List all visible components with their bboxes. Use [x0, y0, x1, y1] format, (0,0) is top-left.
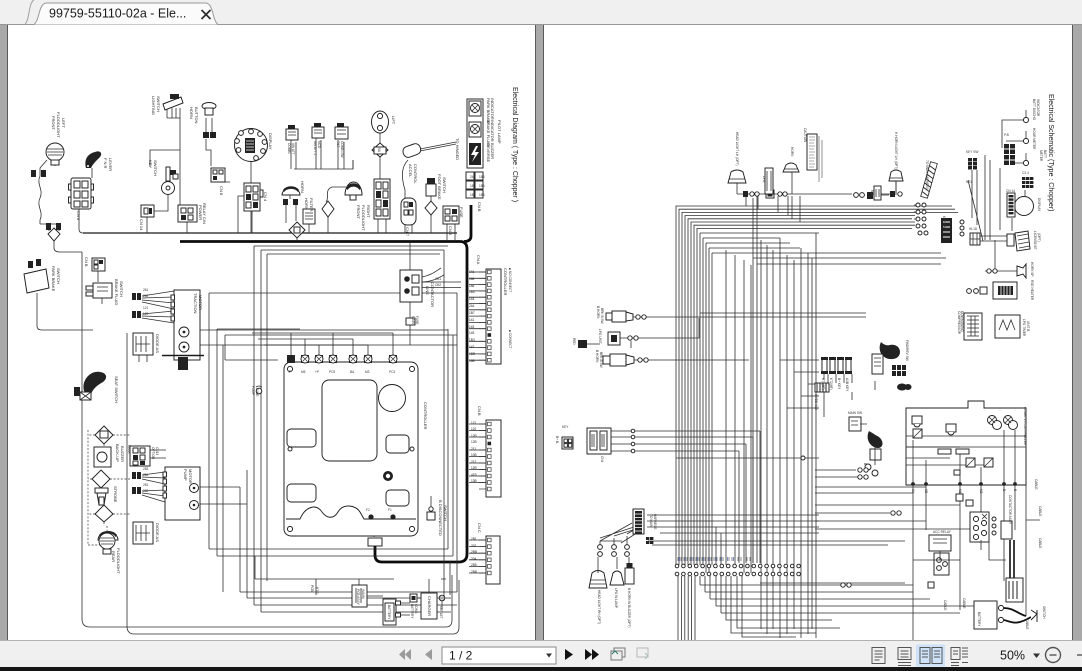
svg-text:COMBI: COMBI — [287, 143, 291, 154]
svg-text:18B: 18B — [470, 193, 476, 197]
svg-text:BATTERY: BATTERY — [410, 604, 414, 619]
svg-text:LIGHTING: LIGHTING — [151, 96, 156, 115]
svg-text:CN B: CN B — [477, 202, 482, 212]
svg-text:HORN: HORN — [790, 147, 794, 157]
svg-text:RSE HEATER: RSE HEATER — [1030, 280, 1034, 301]
svg-text:B HORN: B HORN — [596, 306, 600, 319]
svg-text:ACCEL: ACCEL — [408, 164, 413, 178]
svg-text:1B7: 1B7 — [469, 311, 475, 315]
svg-text:SWITCH: SWITCH — [153, 160, 158, 176]
svg-text:PC3: PC3 — [389, 370, 395, 374]
svg-text:122: 122 — [471, 427, 477, 431]
svg-text:H HORN LIGHT LH (OPT): H HORN LIGHT LH (OPT) — [894, 132, 898, 169]
svg-text:LPG W LAMP: LPG W LAMP — [614, 588, 618, 608]
svg-text:CB1: CB1 — [435, 277, 441, 281]
svg-text:212: 212 — [471, 460, 477, 464]
svg-text:145: 145 — [469, 331, 475, 335]
svg-text:1B5: 1B5 — [469, 290, 475, 294]
svg-text:284: 284 — [143, 473, 149, 477]
svg-text:282: 282 — [143, 489, 149, 493]
svg-text:-P: -P — [288, 370, 291, 374]
svg-text:16B: 16B — [469, 359, 475, 363]
svg-text:PC5: PC5 — [329, 370, 335, 374]
svg-text:PCB: PCB — [310, 585, 314, 592]
svg-text:RIGHT: RIGHT — [366, 205, 371, 218]
svg-text:18B: 18B — [479, 193, 485, 197]
svg-text:COMBI VX CONTROLLER: COMBI VX CONTROLLER — [1023, 407, 1027, 446]
svg-text:FILTER: FILTER — [309, 198, 314, 212]
svg-text:CABLE: CABLE — [962, 598, 966, 608]
svg-text:CABLE: CABLE — [1038, 538, 1042, 548]
svg-text:LPG UNIT: LPG UNIT — [598, 329, 602, 344]
svg-text:INDICATOR: INDICATOR — [490, 98, 495, 120]
svg-text:283: 283 — [143, 467, 149, 471]
svg-text:FRONT: FRONT — [51, 116, 56, 130]
svg-text:MOTOR: MOTOR — [198, 295, 203, 310]
svg-text:18B: 18B — [470, 184, 476, 188]
svg-text:B+: B+ — [863, 463, 867, 467]
svg-text:N11: N11 — [870, 190, 874, 196]
svg-text:PUMP: PUMP — [251, 386, 255, 395]
svg-text:HTG: HTG — [315, 587, 319, 594]
svg-text:Electrical Diagram ( Type : Ch: Electrical Diagram ( Type : Chopper ) — [511, 87, 518, 202]
svg-text:B+: B+ — [1002, 489, 1006, 493]
svg-text:B-: B- — [1013, 489, 1017, 492]
svg-text:261: 261 — [143, 288, 149, 292]
svg-text:2B5: 2B5 — [471, 563, 477, 567]
svg-text:M5: M5 — [301, 370, 306, 374]
svg-text:CONN: CONN — [414, 604, 418, 614]
svg-text:1B3: 1B3 — [469, 338, 475, 342]
svg-text:FUSE: FUSE — [415, 316, 419, 325]
svg-text:TRACTION: TRACTION — [193, 293, 198, 314]
svg-text:CN 14: CN 14 — [139, 219, 144, 231]
svg-text:COMPRESSOR: COMPRESSOR — [957, 311, 961, 335]
svg-text:142: 142 — [469, 345, 475, 349]
svg-text:SWITCH: SWITCH — [119, 281, 124, 297]
svg-text:P.B: P.B — [1004, 133, 1009, 137]
svg-text:12B: 12B — [471, 440, 477, 444]
svg-text:144: 144 — [469, 297, 475, 301]
svg-text:HL1D: HL1D — [969, 227, 978, 231]
svg-text:C3 4: C3 4 — [1022, 171, 1029, 175]
svg-text:FRONT: FRONT — [356, 205, 361, 219]
svg-text:M2: M2 — [979, 489, 983, 494]
svg-text:BUZZER: BUZZER — [120, 446, 125, 462]
svg-text:■ CONNECT: ■ CONNECT — [508, 330, 512, 349]
svg-text:REAR: REAR — [127, 445, 131, 455]
svg-text:122: 122 — [143, 312, 149, 316]
svg-text:166: 166 — [469, 277, 475, 281]
svg-text:M3: M3 — [365, 370, 370, 374]
svg-text:INDICATOR: INDICATOR — [1036, 99, 1040, 117]
svg-text:KEY: KEY — [562, 425, 569, 429]
svg-text:211: 211 — [471, 447, 476, 451]
svg-text:CN 6: CN 6 — [76, 211, 81, 221]
svg-text:BACK-UP: BACK-UP — [115, 444, 120, 462]
svg-text:1A1: 1A1 — [469, 270, 475, 274]
svg-text:BATTERY: BATTERY — [387, 605, 391, 620]
svg-text:BRK B SW: BRK B SW — [600, 308, 604, 324]
svg-text:FOOT BRAKE: FOOT BRAKE — [437, 174, 442, 200]
svg-text:N21: N21 — [966, 180, 972, 184]
svg-text:CN 4: CN 4 — [263, 192, 268, 202]
svg-text:CN 7: CN 7 — [405, 227, 410, 237]
svg-text:DISPLAY: DISPLAY — [268, 133, 273, 150]
svg-text:SW ATT 2: SW ATT 2 — [313, 141, 317, 155]
svg-text:CN13: CN13 — [155, 447, 159, 455]
svg-text:CN 8: CN 8 — [219, 186, 224, 196]
svg-text:2BB: 2BB — [471, 570, 477, 574]
svg-text:OPTION: OPTION — [151, 447, 155, 460]
svg-text:FLOODLIGHT: FLOODLIGHT — [361, 205, 366, 231]
svg-text:121: 121 — [471, 421, 477, 425]
svg-text:ACC RELAY: ACC RELAY — [933, 530, 952, 534]
svg-text:SWITCH: SWITCH — [56, 268, 61, 284]
svg-text:TILT: TILT — [336, 141, 340, 147]
svg-text:OUTLET: OUTLET — [439, 606, 443, 619]
svg-text:8 YDB A1B: 8 YDB A1B — [814, 394, 818, 410]
svg-text:281: 281 — [143, 483, 149, 487]
svg-text:FWD/REV SW: FWD/REV SW — [905, 340, 909, 361]
svg-text:SEAT SWITCH: SEAT SWITCH — [114, 376, 119, 403]
svg-text:188: 188 — [469, 284, 475, 288]
svg-text:PUMP: PUMP — [183, 469, 188, 481]
svg-text:HORN SP: HORN SP — [1030, 262, 1034, 277]
svg-text:1BB: 1BB — [469, 352, 475, 356]
svg-text:CABLE: CABLE — [943, 600, 947, 610]
svg-text:BATTERY: BATTERY — [977, 612, 981, 627]
svg-text:LEVER: LEVER — [108, 158, 113, 171]
svg-text:TO MAIN: TO MAIN — [649, 514, 653, 528]
svg-text:B HORN: B HORN — [595, 350, 599, 363]
svg-text:12B: 12B — [471, 466, 477, 470]
svg-text:CABLE: CABLE — [1038, 506, 1042, 516]
svg-text:2A1: 2A1 — [469, 304, 475, 308]
svg-text:KEY SW: KEY SW — [966, 150, 978, 154]
svg-text:143: 143 — [469, 325, 475, 329]
svg-text:MAIN SW: MAIN SW — [848, 411, 862, 415]
svg-text:B DISCONNECTED: B DISCONNECTED — [438, 500, 443, 536]
svg-text:B+ B-: B+ B- — [555, 436, 559, 444]
svg-text:A1B KEY: A1B KEY — [845, 378, 849, 392]
svg-text:KT1(8F): KT1(8F) — [821, 378, 825, 390]
svg-text:240: 240 — [470, 175, 476, 179]
svg-text:DISPLAY: DISPLAY — [1037, 198, 1041, 212]
svg-text:STROBE: STROBE — [113, 486, 118, 503]
svg-text:HARNESS: HARNESS — [653, 514, 657, 529]
svg-text:FUSE: FUSE — [255, 388, 259, 397]
svg-text:+P: +P — [315, 370, 319, 374]
svg-text:HEAD LIGHT RH (OPT): HEAD LIGHT RH (OPT) — [597, 590, 601, 624]
svg-text:LINE: LINE — [425, 286, 430, 295]
svg-text:CONTROLLER: CONTROLLER — [423, 402, 428, 429]
svg-text:204: 204 — [471, 557, 477, 561]
svg-text:HOUR METER: HOUR METER — [1032, 128, 1036, 150]
svg-text:FLOODLIGHT: FLOODLIGHT — [56, 112, 61, 138]
svg-text:10B: 10B — [471, 453, 477, 457]
svg-text:12B: 12B — [471, 434, 477, 438]
svg-text:121: 121 — [143, 306, 149, 310]
svg-text:MAIN: MAIN — [411, 316, 415, 325]
svg-text:F N R: F N R — [103, 158, 108, 169]
svg-text:HEAD LIGHT LH (OPT): HEAD LIGHT LH (OPT) — [735, 132, 739, 166]
svg-text:CAUTION: CAUTION — [803, 128, 807, 143]
svg-text:BRAKE FLUID: BRAKE FLUID — [114, 279, 119, 305]
svg-text:LIFT: LIFT — [391, 116, 396, 125]
svg-text:LEFT: LEFT — [61, 118, 66, 128]
svg-text:18B: 18B — [479, 184, 485, 188]
svg-text:BRK B SW: BRK B SW — [599, 352, 603, 368]
svg-text:RED: RED — [572, 338, 576, 345]
svg-text:DIODE AS: DIODE AS — [155, 523, 160, 542]
svg-text:FUSE: FUSE — [459, 207, 464, 218]
svg-text:LPG TIMER: LPG TIMER — [1022, 319, 1026, 337]
svg-text:F2: F2 — [366, 508, 370, 512]
svg-text:UNIT B: UNIT B — [1026, 321, 1030, 331]
svg-text:BUTTON: BUTTON — [194, 107, 199, 123]
svg-text:HORN: HORN — [189, 107, 194, 119]
svg-text:SWITCH: SWITCH — [442, 177, 447, 193]
svg-text:(MAIN): (MAIN) — [361, 589, 365, 599]
svg-text:2B1: 2B1 — [471, 537, 477, 541]
svg-text:B+ KEY: B+ KEY — [837, 378, 841, 390]
svg-text:LICENSE BT: LICENSE BT — [1033, 231, 1037, 250]
svg-text:PARK BRAKE: PARK BRAKE — [51, 266, 56, 292]
svg-text:CABLE: CABLE — [1034, 479, 1038, 489]
svg-text:DIODE AS: DIODE AS — [155, 334, 160, 353]
svg-text:MCD: MCD — [317, 141, 321, 149]
svg-text:PILOT LAMP: PILOT LAMP — [497, 120, 502, 144]
svg-text:CN B: CN B — [84, 257, 89, 267]
svg-text:(OPT): (OPT) — [1037, 233, 1041, 242]
svg-text:SWITCH: SWITCH — [1042, 606, 1046, 619]
svg-text:SW ATT: SW ATT — [291, 143, 295, 155]
svg-text:13B: 13B — [471, 479, 477, 483]
svg-text:BATT: BATT — [1043, 150, 1047, 158]
svg-text:Electrical Schematic (Type : C: Electrical Schematic (Type : Chopper) — [1047, 94, 1054, 212]
svg-text:HORN: HORN — [304, 198, 309, 210]
svg-text:LPG: LPG — [762, 176, 766, 183]
svg-text:INDICATOR: INDICATOR — [490, 120, 495, 142]
svg-text:METER: METER — [1039, 150, 1043, 162]
svg-text:CN B: CN B — [477, 406, 482, 416]
svg-text:18B: 18B — [479, 175, 485, 179]
svg-text:TO HINGED: TO HINGED — [455, 138, 460, 160]
svg-text:F1: F1 — [388, 508, 392, 512]
svg-text:REAR: REAR — [111, 551, 116, 562]
svg-text:B HORN W BUZZER (OPT): B HORN W BUZZER (OPT) — [627, 588, 631, 628]
svg-text:HORN: HORN — [300, 181, 305, 193]
svg-text:CONTROL: CONTROL — [413, 164, 418, 184]
svg-text:41B: 41B — [471, 473, 477, 477]
svg-text:141: 141 — [469, 318, 475, 322]
svg-text:CN C: CN C — [477, 523, 482, 533]
svg-text:PCB ASSY: PCB ASSY — [356, 589, 360, 606]
svg-text:KEY SW: KEY SW — [942, 216, 946, 228]
svg-text:TO MAIN HARNESS: TO MAIN HARNESS — [925, 160, 929, 190]
svg-text:FLOODLIGHT: FLOODLIGHT — [116, 548, 121, 574]
svg-text:CN 14: CN 14 — [1006, 189, 1015, 193]
svg-text:RELAY C/N: RELAY C/N — [202, 203, 207, 224]
svg-text:SB: SB — [924, 489, 928, 493]
svg-text:CN4: CN4 — [600, 456, 604, 463]
svg-text:SWITCH: SWITCH — [156, 96, 161, 112]
svg-text:CONTROLLER: CONTROLLER — [503, 268, 508, 295]
svg-text:BUZZER: BUZZER — [490, 143, 495, 159]
svg-text:M1: M1 — [958, 489, 962, 494]
svg-text:202: 202 — [471, 544, 477, 548]
svg-text:CN 9: CN 9 — [448, 226, 453, 236]
svg-text:CHARGER: CHARGER — [427, 596, 432, 616]
svg-text:COMBI SW: COMBI SW — [340, 141, 344, 157]
svg-text:262: 262 — [143, 294, 149, 298]
svg-text:BATT DISCHG: BATT DISCHG — [1032, 99, 1036, 121]
svg-text:CN A: CN A — [476, 255, 481, 265]
svg-text:KT2(8F): KT2(8F) — [829, 378, 833, 390]
svg-text:SWITCH: SWITCH — [443, 505, 448, 521]
svg-text:CB2: CB2 — [435, 283, 441, 287]
svg-text:■ NO CONNECT: ■ NO CONNECT — [508, 268, 512, 292]
svg-text:CABLE: CABLE — [1025, 619, 1029, 629]
svg-text:MOTOR: MOTOR — [188, 469, 193, 484]
svg-text:KEY: KEY — [148, 160, 153, 168]
svg-text:CONTACTOR ASSY: CONTACTOR ASSY — [1008, 495, 1012, 525]
svg-text:2BB: 2BB — [471, 550, 477, 554]
